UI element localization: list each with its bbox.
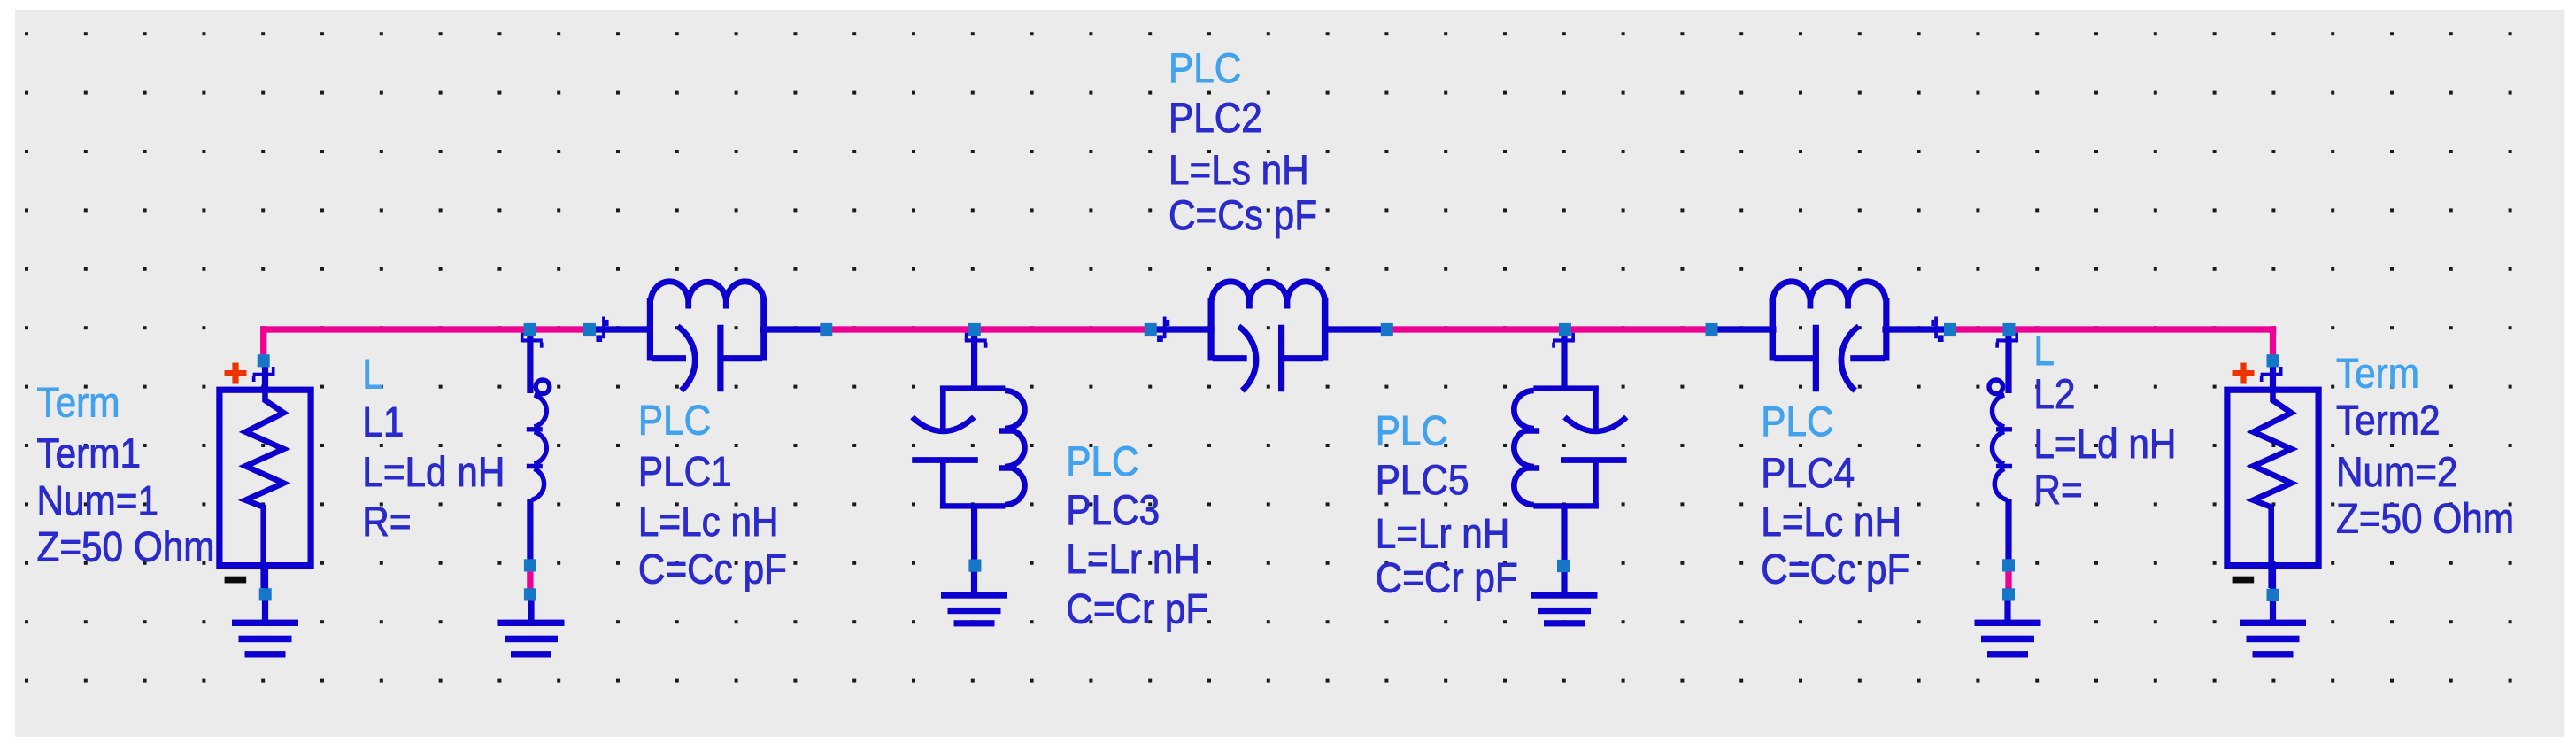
wire PLC4 to Term2 — [1947, 326, 2276, 332]
wire arrow at PLC1 left pin — [596, 317, 608, 343]
pin Term1 bottom — [262, 567, 268, 592]
wire Term1 to PLC1 — [260, 326, 593, 332]
svg-text:L: L — [362, 352, 383, 399]
svg-text:PLC: PLC — [1761, 399, 1833, 445]
label Term1 — [37, 381, 215, 570]
pin PLC4 left — [1712, 326, 1777, 332]
pin PLC1 left — [590, 326, 653, 332]
pin Term2 top — [2270, 360, 2276, 390]
node L1 mid — [524, 559, 536, 571]
ground of L1 — [498, 599, 565, 658]
node Term2 top — [2267, 354, 2279, 367]
svg-text:C=Cc pF: C=Cc pF — [638, 546, 787, 592]
pin Term2 bottom — [2270, 567, 2276, 592]
node PLC5 ground — [1557, 560, 1570, 572]
ground of PLC3 — [941, 569, 1007, 626]
wire arrow at Term1 pin — [252, 367, 275, 382]
term Term1 — [220, 363, 311, 589]
wire corner left (Term1 drop) — [260, 326, 266, 358]
node PLC2 left — [1145, 323, 1157, 336]
svg-text:L2: L2 — [2033, 372, 2075, 418]
wire L2 bottom segment — [2005, 567, 2011, 592]
wire PLC2 to PLC4 — [1384, 326, 1715, 332]
svg-text:L=Ld nH: L=Ld nH — [362, 450, 505, 496]
node PLC3 ground — [968, 560, 981, 572]
pin PLC2 left — [1151, 326, 1215, 332]
label Term2 — [2336, 351, 2514, 542]
parallel LC PLC3 (shunt) — [912, 385, 1024, 508]
label PLC3 — [1066, 439, 1208, 632]
ground of PLC5 — [1531, 569, 1598, 626]
wire arrow at Term2 pin — [2260, 367, 2283, 382]
svg-text:C=Cr pF: C=Cr pF — [1066, 586, 1208, 632]
pin L1 bottom — [527, 499, 533, 565]
node L2 mid — [2002, 559, 2015, 571]
node L2 top — [2003, 323, 2016, 336]
svg-text:L=Lc nH: L=Lc nH — [638, 499, 779, 546]
svg-text:Num=1: Num=1 — [37, 478, 159, 524]
parallel LC PLC2 — [1208, 282, 1329, 391]
node L1 top — [524, 323, 536, 336]
wire corner right (Term2 drop) — [2270, 326, 2276, 358]
node Term2 ground — [2267, 589, 2279, 601]
pin L2 bottom — [2005, 499, 2011, 565]
pin PLC3 top — [971, 329, 977, 388]
pin PLC5 top — [1561, 329, 1567, 388]
svg-text:Num=2: Num=2 — [2336, 450, 2458, 496]
node L1 ground — [524, 588, 536, 600]
inductor L1 — [527, 380, 550, 500]
wire arrow at PLC2 left pin — [1157, 317, 1169, 343]
svg-text:PLC5: PLC5 — [1376, 458, 1469, 504]
node PLC3 top — [968, 323, 981, 336]
pin L2 top — [2005, 329, 2011, 393]
label L1 — [362, 352, 505, 546]
svg-text:PLC: PLC — [1066, 439, 1138, 485]
svg-text:Z=50 Ohm: Z=50 Ohm — [37, 524, 215, 570]
svg-text:PLC3: PLC3 — [1066, 488, 1160, 534]
pin Term1 top — [262, 360, 268, 390]
svg-text:L=Lr nH: L=Lr nH — [1066, 537, 1200, 583]
svg-text:C=Cs pF: C=Cs pF — [1168, 193, 1317, 239]
svg-text:C=Cc pF: C=Cc pF — [1761, 546, 1909, 592]
pin L1 top — [527, 329, 533, 393]
svg-text:PLC: PLC — [1376, 408, 1448, 454]
parallel LC PLC5 (shunt, mirrored) — [1514, 385, 1626, 508]
svg-text:L: L — [2033, 329, 2055, 375]
label PLC5 — [1376, 408, 1518, 601]
svg-text:L=Ls nH: L=Ls nH — [1168, 148, 1309, 194]
node PLC1 left — [583, 323, 596, 336]
wire arrow at PLC3 pin — [965, 333, 988, 348]
pin PLC1 right — [760, 326, 827, 332]
svg-text:Term: Term — [37, 381, 120, 427]
node L2 ground — [2002, 588, 2015, 600]
pin PLC2 right — [1322, 326, 1387, 332]
svg-text:Z=50 Ohm: Z=50 Ohm — [2336, 496, 2514, 542]
svg-text:L=Ld nH: L=Ld nH — [2033, 422, 2176, 468]
svg-text:L=Lr nH: L=Lr nH — [1376, 511, 1510, 557]
parallel LC PLC4 (mirrored) — [1770, 282, 1890, 391]
wire arrow at PLC5 pin — [1552, 333, 1575, 348]
svg-text:PLC2: PLC2 — [1168, 96, 1262, 142]
node Term1 ground — [259, 588, 272, 600]
wire arrow at L1 pin — [521, 333, 544, 348]
svg-text:Term: Term — [2336, 351, 2419, 397]
label PLC1 — [638, 398, 787, 592]
svg-text:PLC: PLC — [638, 398, 711, 444]
pin PLC5 bottom — [1561, 507, 1567, 562]
ground of L2 — [1975, 599, 2041, 658]
node PLC2 right — [1381, 323, 1393, 336]
svg-text:Term1: Term1 — [37, 431, 142, 477]
label L2 — [2033, 329, 2176, 514]
svg-text:L1: L1 — [362, 400, 404, 446]
wire L1 bottom segment — [527, 567, 533, 592]
svg-text:Term2: Term2 — [2336, 398, 2441, 444]
term Term2 — [2227, 363, 2318, 589]
ground of Term2 — [2240, 599, 2306, 658]
svg-text:L=Lc nH: L=Lc nH — [1761, 499, 1901, 546]
inductor L2 (mirrored) — [1989, 380, 2012, 500]
svg-text:PLC1: PLC1 — [638, 450, 732, 496]
node PLC1 right — [820, 323, 832, 336]
node PLC5 top — [1559, 323, 1571, 336]
parallel LC PLC1 — [647, 282, 767, 391]
node PLC4 right — [1944, 323, 1956, 336]
wire arrow at L2 pin — [1995, 333, 2018, 348]
svg-text:PLC: PLC — [1168, 46, 1241, 92]
pin PLC4 right — [1882, 326, 1950, 332]
node PLC4 left — [1706, 323, 1718, 336]
ground of Term1 — [232, 599, 298, 658]
svg-text:PLC4: PLC4 — [1761, 451, 1855, 497]
node Term1 top — [258, 354, 270, 367]
svg-text:R=: R= — [362, 499, 411, 546]
label PLC2 — [1168, 46, 1317, 239]
label PLC4 — [1761, 399, 1909, 592]
wire arrow at PLC4 right pin — [1931, 317, 1943, 343]
svg-text:C=Cr pF: C=Cr pF — [1376, 556, 1518, 602]
wire PLC1 to PLC2 — [822, 326, 1153, 332]
svg-text:R=: R= — [2033, 468, 2082, 514]
pin PLC3 bottom — [971, 507, 977, 562]
